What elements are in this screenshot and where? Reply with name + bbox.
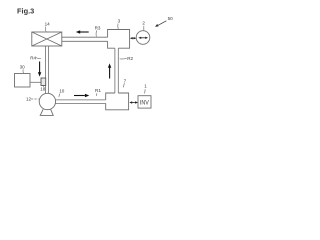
svg-text:18: 18 <box>40 87 46 92</box>
svg-text:R2: R2 <box>127 56 133 61</box>
svg-text:30: 30 <box>20 65 26 70</box>
svg-text:10: 10 <box>59 89 65 94</box>
svg-text:7: 7 <box>124 78 127 83</box>
svg-text:14: 14 <box>45 21 51 26</box>
svg-text:Fig.3: Fig.3 <box>17 7 34 16</box>
svg-text:R3: R3 <box>95 26 101 31</box>
svg-text:R1: R1 <box>95 88 101 93</box>
svg-text:R4: R4 <box>30 55 36 60</box>
svg-text:3: 3 <box>118 19 121 24</box>
svg-text:2: 2 <box>142 21 145 26</box>
svg-text:1: 1 <box>144 83 147 88</box>
svg-text:INV: INV <box>140 101 149 107</box>
svg-text:50: 50 <box>168 16 174 21</box>
svg-text:12: 12 <box>26 97 32 102</box>
